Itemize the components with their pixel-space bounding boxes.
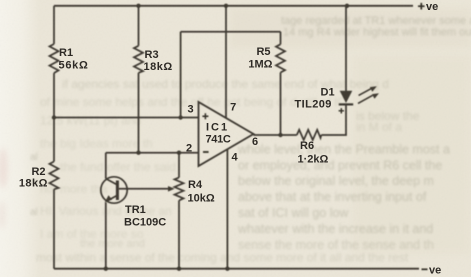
wire emitter to bottom rail bbox=[105, 203, 107, 269]
wire pin3 from node A to op-amp bbox=[54, 117, 199, 119]
wire R2 to bottom rail bbox=[53, 189, 55, 268]
LED arrow 1 bbox=[359, 89, 372, 96]
wire pin4 riser bbox=[226, 149, 228, 268]
emitter arrowhead bbox=[105, 195, 113, 202]
op-amp plus sign bbox=[202, 113, 208, 119]
wire base lead to R4 wiper bbox=[119, 188, 168, 190]
wire LED top column bbox=[345, 6, 347, 91]
pink margin smudge bbox=[0, 148, 8, 188]
wire R4 to bottom rail bbox=[178, 201, 180, 269]
wire pin7 riser bbox=[225, 6, 227, 118]
supply - sign of -ve bbox=[422, 268, 428, 270]
op-amp IC1 triangle bbox=[199, 102, 254, 166]
junction node LED/top rail bbox=[345, 4, 349, 8]
junction node pin4/bottom rail bbox=[225, 267, 229, 271]
junction node R4/bottom rail bbox=[177, 267, 181, 271]
junction node pin7/top rail bbox=[224, 4, 228, 8]
wire left column (R1/R2 branch) bbox=[53, 6, 55, 44]
wire R5 to output node bbox=[280, 73, 282, 136]
resistor R4 (preset) bbox=[175, 178, 184, 201]
supply + sign of +ve bbox=[418, 3, 425, 10]
op-amp minus sign bbox=[203, 151, 209, 153]
LED plus sign bbox=[339, 108, 344, 113]
wire bottom -ve rail bbox=[54, 268, 419, 270]
resistor R5 bbox=[276, 44, 285, 72]
wire R6 to LED branch bbox=[321, 104, 346, 135]
resistor R6 bbox=[297, 130, 322, 140]
wire feedback horizontal bbox=[181, 31, 281, 33]
junction node feedback/pin3 bbox=[178, 115, 182, 119]
junction node R4/node B bbox=[177, 151, 181, 155]
wiper arrowhead bbox=[168, 186, 175, 192]
resistor R2 bbox=[50, 162, 59, 190]
wire node A segment bbox=[53, 73, 55, 162]
resistor R3 bbox=[134, 46, 143, 73]
wire pin2 node B horizontal bbox=[106, 152, 199, 154]
resistor R1 bbox=[50, 44, 59, 73]
junction node R5/output bbox=[278, 133, 282, 137]
junction node R3/node B bbox=[136, 151, 140, 155]
LED D1 bbox=[340, 91, 353, 103]
LED arrow 2 bbox=[358, 95, 373, 103]
wire feedback riser to pin3 node bbox=[180, 32, 182, 118]
wire R5 top bbox=[280, 32, 282, 45]
junction node A (R1/R2/pin3) bbox=[52, 115, 56, 119]
junction node R3/top rail bbox=[136, 4, 140, 8]
wire R3 column top bbox=[138, 6, 140, 46]
wire collector riser bbox=[105, 153, 107, 179]
wire R4 riser from node B bbox=[178, 153, 180, 178]
transistor TR1 bbox=[101, 177, 127, 203]
wire output pin6 bbox=[254, 134, 297, 136]
wire R3 to node B bbox=[138, 73, 140, 153]
wire top +ve rail bbox=[54, 5, 413, 7]
junction node emitter/bottom rail bbox=[104, 267, 108, 271]
